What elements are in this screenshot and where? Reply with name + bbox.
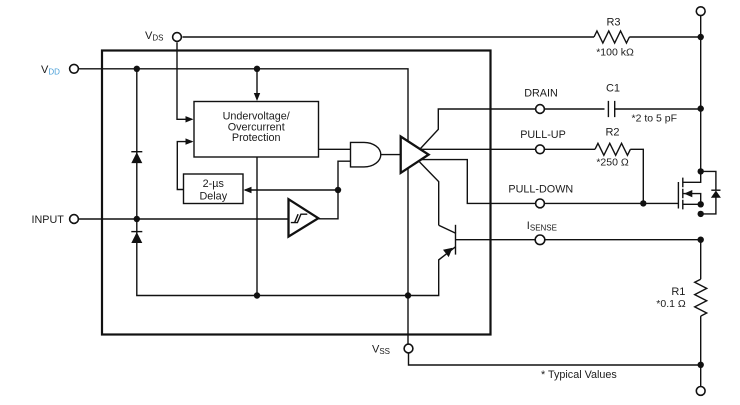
svg-text:*100 kΩ: *100 kΩ <box>596 47 634 59</box>
wire driver to transistor collector <box>420 162 439 225</box>
node bottom rail junction <box>698 362 704 368</box>
node VDD/protection junction <box>254 66 260 72</box>
svg-text:C1: C1 <box>606 82 620 94</box>
svg-text:R3: R3 <box>606 17 620 29</box>
diode D1 (VDD clamp) <box>131 151 142 153</box>
terminal INPUT <box>70 215 79 224</box>
node MOSFET drain junction <box>698 168 704 174</box>
wire VDS vertical into box <box>177 42 192 119</box>
transistor Q1 collector diagonal <box>439 225 456 233</box>
wire C1 to drain node <box>615 108 701 110</box>
diode D2 (VSS clamp) <box>131 231 142 233</box>
node MOSFET source junction <box>698 201 704 207</box>
svg-text:* Typical Values: * Typical Values <box>541 369 617 381</box>
terminal VDD <box>70 64 79 73</box>
AND gate U2 <box>351 142 381 167</box>
arrowhead VDS into protection box <box>186 116 194 122</box>
svg-text:Delay: Delay <box>199 190 227 202</box>
wire delay output loop into protection box <box>177 142 192 190</box>
wire top-right vertical rail <box>700 16 702 172</box>
svg-text:*2 to 5 pF: *2 to 5 pF <box>632 113 678 125</box>
svg-text:INPUT: INPUT <box>32 214 65 226</box>
transistor Q1 emitter diagonal <box>408 247 456 296</box>
node VDD/diode junction <box>134 66 140 72</box>
wire VDS horizontal to R3 <box>183 36 595 38</box>
node rail junction 1 <box>254 292 260 298</box>
terminal bottom-right <box>696 387 705 396</box>
svg-text:DRAIN: DRAIN <box>524 87 558 99</box>
wire arrow into protection box top <box>256 69 258 94</box>
wire VDD rail to internal vertical <box>78 69 408 344</box>
node delay/schmitt junction <box>335 187 341 193</box>
resistor R1 <box>695 279 707 316</box>
node C1/drain junction <box>698 105 704 111</box>
svg-text:2-µs: 2-µs <box>203 178 225 190</box>
terminal top-right <box>696 7 705 16</box>
capacitor C1 <box>608 101 614 117</box>
arrowhead into delay box right edge <box>244 187 252 193</box>
schmitt trigger U3 <box>289 199 319 236</box>
protection box U1 <box>194 102 319 158</box>
svg-text:R1: R1 <box>671 286 685 298</box>
transistor Q1 base bar <box>455 225 457 255</box>
wire schmitt output up to AND input 2 <box>318 161 351 219</box>
node R3 junction <box>698 34 704 40</box>
svg-text:VSS: VSS <box>372 344 390 357</box>
MOSFET Q2 gate bar <box>677 182 679 209</box>
node ISENSE junction <box>698 237 704 243</box>
wire pull-down from driver lower edge <box>419 160 678 204</box>
MOSFET Q2 channel segments <box>682 178 684 210</box>
terminal ISENSE <box>535 235 545 245</box>
svg-text:*0.1 Ω: *0.1 Ω <box>656 298 686 310</box>
terminal PULL-UP <box>536 145 545 154</box>
wire INPUT line <box>79 218 289 220</box>
delay box U5 <box>184 174 244 204</box>
svg-text:PULL-UP: PULL-UP <box>520 129 566 141</box>
svg-text:VDS: VDS <box>145 30 163 43</box>
node INPUT junction <box>134 216 140 222</box>
wire node to R1 <box>700 240 702 280</box>
wire R2 down to pull-down line <box>630 149 643 203</box>
svg-text:PULL-DOWN: PULL-DOWN <box>508 183 573 195</box>
svg-text:R2: R2 <box>605 127 619 139</box>
wire drain diagonal from driver <box>420 109 604 149</box>
big IC boundary box <box>102 51 491 335</box>
wire ISENSE base line <box>456 239 701 241</box>
node rail junction 2 <box>405 292 411 298</box>
wire diode chain vertical upper <box>136 69 138 219</box>
terminal VSS <box>404 344 413 353</box>
wire diode chain vertical lower to VSS rail <box>137 219 408 296</box>
terminal VDS <box>173 33 182 42</box>
svg-text:ISENSE: ISENSE <box>527 220 557 233</box>
wire pull-up from driver apex <box>420 148 595 150</box>
svg-text:VDD: VDD <box>41 64 60 77</box>
driver triangle U4 <box>401 137 429 173</box>
body diode D3 <box>701 171 716 214</box>
wire protection output to AND input 1 <box>319 148 351 150</box>
arrowhead emitter (PNP) <box>443 248 453 257</box>
wire protection box bottom to VSS rail <box>256 157 258 296</box>
wire delay input from node <box>245 189 338 191</box>
wire VSS below circle to bottom rail <box>409 353 701 365</box>
MOSFET Q2 body tap with arrow <box>684 194 701 205</box>
terminal PULL-DOWN <box>536 199 545 208</box>
wire R3 to top-right node <box>629 36 700 38</box>
resistor R3 <box>594 31 629 43</box>
node R2/pull-down junction <box>640 200 646 206</box>
arrowhead delay into protection box <box>186 138 194 144</box>
MOSFET Q2 source tap <box>684 203 701 205</box>
terminal DRAIN <box>536 105 545 114</box>
svg-text:Protection: Protection <box>232 132 281 144</box>
svg-text:*250 Ω: *250 Ω <box>596 156 629 168</box>
node body-diode junction <box>698 211 704 217</box>
resistor R2 <box>595 143 630 155</box>
wire AND output to driver <box>381 154 401 156</box>
schmitt hysteresis glyph <box>291 214 308 222</box>
wire R1 to bottom terminal <box>700 316 702 386</box>
MOSFET Q2 drain tap <box>684 171 701 182</box>
